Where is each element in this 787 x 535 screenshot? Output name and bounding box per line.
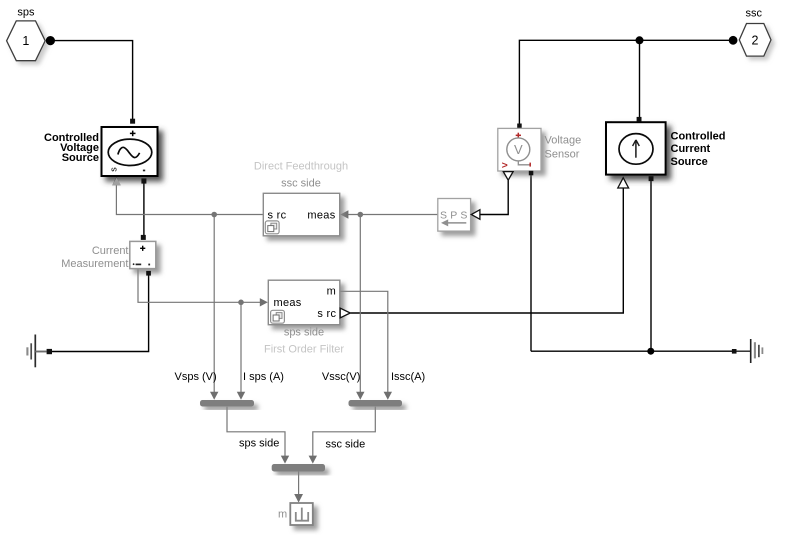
svg-text:First Order Filter: First Order Filter	[264, 343, 344, 355]
wire: port1 to CVS + terminal	[50, 41, 132, 120]
svg-text:I sps (A): I sps (A)	[243, 371, 284, 383]
svg-text:ssc: ssc	[746, 8, 763, 20]
node: junction at port 2	[729, 36, 738, 45]
left ground (electrical reference)	[27, 335, 46, 368]
voltage sensor block	[498, 128, 541, 171]
wire: bottom bus to right ground	[531, 350, 732, 352]
port square: CCS top	[637, 117, 642, 122]
voltage sensor PS output triangle	[503, 172, 513, 181]
port square: left ground	[47, 349, 52, 354]
controlled current source block	[606, 122, 666, 174]
port square: CVS - terminal	[141, 178, 146, 183]
svg-text:S P S: S P S	[440, 209, 468, 221]
port square: current measurement -	[146, 271, 151, 276]
svg-text:sps side: sps side	[284, 327, 324, 339]
svg-text:V: V	[514, 142, 523, 157]
svg-text:meas: meas	[274, 297, 302, 309]
wire: SPS converter output to ssc-side meas input	[340, 210, 438, 218]
label ssc side (subsystem)	[281, 178, 321, 190]
label ssc	[746, 8, 763, 20]
label Voltage Sensor	[545, 135, 582, 161]
svg-text:ssc side: ssc side	[281, 178, 321, 190]
node: junction Vsps branch	[211, 212, 217, 218]
wire: Vssc(V) branch down to right mux	[356, 215, 364, 400]
svg-text:s rc: s rc	[268, 209, 287, 221]
CVS s input port triangle	[112, 178, 121, 185]
wire: left mux to center mux	[227, 407, 289, 464]
label I sps (A)	[243, 371, 284, 383]
wire: ssc-side src output to CVS s input	[112, 177, 263, 215]
wire: voltage sensor - down to bottom bus	[530, 175, 532, 351]
svg-text:sps side: sps side	[239, 437, 279, 449]
label Current Measurement	[61, 245, 128, 270]
wire: right mux to center mux	[309, 407, 376, 464]
svg-text:Vssc(V): Vssc(V)	[322, 371, 361, 383]
controlled voltage source U1	[102, 127, 158, 176]
label Controlled Voltage Source	[44, 132, 99, 164]
svg-text:m: m	[278, 508, 287, 520]
current measurement block	[130, 241, 156, 268]
label First Order Filter	[264, 343, 344, 355]
right mux bar	[349, 400, 403, 407]
node: junction Vssc branch	[358, 212, 364, 218]
wire: I sps (A) branch down to left mux	[237, 302, 245, 400]
svg-text:Current: Current	[671, 143, 711, 155]
port square: voltage sensor +	[517, 124, 522, 129]
scope block	[290, 503, 313, 525]
label ssc side (wire)	[326, 439, 366, 451]
svg-text:Current: Current	[92, 245, 129, 257]
port square: current measurement +	[141, 235, 146, 240]
library link badge (sps side)	[271, 310, 285, 323]
svg-text:2: 2	[752, 34, 759, 48]
input port 1 hexagon	[7, 21, 46, 61]
SPS input triangle	[471, 210, 480, 220]
sps-side src output triangle	[340, 308, 350, 318]
label Controlled Current Source	[671, 130, 726, 168]
port square: CCS - terminal	[649, 176, 654, 181]
wire: sps-side m output to right mux (Issc)	[340, 291, 392, 400]
svg-text:Direct Feedthrough: Direct Feedthrough	[254, 161, 348, 173]
label m	[278, 508, 287, 520]
svg-text:Controlled: Controlled	[671, 130, 726, 142]
svg-text:Measurement: Measurement	[61, 258, 128, 270]
node: junction on top-right wire	[636, 36, 644, 44]
wire: voltage sensor top to port 2	[519, 40, 730, 124]
wire: branch down to CCS top	[639, 40, 641, 117]
svg-text:Issc(A): Issc(A)	[391, 371, 425, 383]
wire: sps-side src output to CCS signal input	[350, 188, 623, 313]
svg-text:s rc: s rc	[317, 308, 336, 320]
svg-text:Vsps (V): Vsps (V)	[175, 371, 217, 383]
center mux bar	[272, 464, 325, 472]
wire: center mux to scope	[294, 472, 303, 503]
port square: CVS + terminal	[130, 119, 135, 124]
node: junction at port 1	[46, 36, 55, 45]
wire: Vsps (V) branch down to left mux	[210, 215, 218, 400]
wire: current measurement output to sps-side meas input	[138, 269, 268, 307]
node: junction Isps branch	[238, 300, 244, 306]
svg-text:>: >	[502, 160, 508, 172]
label Direct Feedthrough	[254, 161, 348, 173]
left mux bar	[200, 400, 254, 407]
svg-text:Source: Source	[671, 156, 708, 168]
port square: right ground	[732, 349, 737, 354]
svg-text:1: 1	[22, 34, 29, 48]
port square: voltage sensor -	[529, 171, 534, 176]
wire: CCS - terminal down to bottom bus	[650, 180, 652, 351]
label sps	[17, 6, 35, 18]
label Vsps (V)	[175, 371, 217, 383]
library link badge (ssc side)	[265, 221, 279, 234]
subsystem ssc side (Direct Feedthrough)	[263, 193, 339, 236]
wire: CVS - terminal to Current Measurement +	[143, 184, 145, 236]
svg-text:m: m	[327, 286, 336, 298]
label sps side (wire)	[239, 437, 279, 449]
svg-text:s: s	[109, 167, 119, 172]
SPS converter block	[438, 199, 471, 232]
node: junction bottom-right bus	[647, 348, 654, 355]
svg-text:Sensor: Sensor	[545, 149, 580, 161]
output port 2 hexagon	[739, 24, 771, 57]
svg-text:ssc side: ssc side	[326, 439, 366, 451]
label sps side (subsystem)	[284, 327, 324, 339]
label Issc(A)	[391, 371, 425, 383]
CCS signal input triangle	[618, 178, 629, 188]
subsystem sps side (First Order Filter)	[268, 280, 340, 325]
svg-text:Voltage: Voltage	[545, 135, 582, 147]
svg-text:Source: Source	[62, 152, 99, 164]
wire: Current Measurement - to left ground	[52, 275, 149, 352]
right ground (electrical reference)	[736, 339, 762, 363]
wire: voltage sensor PS output to SPS converter	[480, 180, 509, 215]
svg-text:meas: meas	[307, 209, 335, 221]
label Vssc(V)	[322, 371, 361, 383]
svg-text:sps: sps	[17, 6, 35, 18]
